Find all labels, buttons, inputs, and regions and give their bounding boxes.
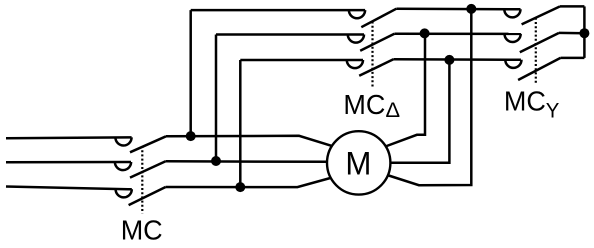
svg-text:M: M — [345, 146, 371, 182]
contactor MC-Y pole 2 blade — [520, 33, 559, 52]
contactor MC pole 3 fixed-contact cup — [116, 189, 132, 197]
contactor MC-delta pole 2 fixed-contact cup — [348, 35, 364, 43]
wire phase L3 input — [6, 187, 132, 190]
wire MC-delta pole1 output to MC-Y pole1 — [396, 7, 520, 10]
wire MC pole2 output to motor — [166, 160, 330, 163]
wire MC pole3 output to motor — [166, 177, 334, 187]
contactor MC-Y linkage dotted line — [535, 18, 537, 85]
wire phase L2 input — [6, 161, 131, 164]
svg-text:MC: MC — [504, 86, 546, 117]
wire top run 2 to MC-delta pole2 — [216, 33, 364, 36]
wire MC-Y pole3 output to star point — [561, 57, 585, 60]
contactor MC-Y pole 1 fixed-contact cup — [504, 9, 520, 17]
wire motor terminal from node E down to motor — [388, 60, 449, 163]
wire motor terminal from node D down to motor — [384, 33, 425, 147]
svg-text:Δ: Δ — [386, 98, 401, 122]
junction star-point dot — [579, 28, 589, 38]
wire riser node B to top run 2 — [215, 35, 218, 162]
wire MC-Y pole2 output to star point — [559, 32, 584, 35]
contactor MC pole 1 blade — [130, 136, 166, 152]
wire motor terminal from node F down to motor — [384, 9, 471, 185]
svg-text:MC: MC — [343, 89, 385, 120]
junction node A dot — [186, 131, 196, 141]
wire MC pole1 output to motor — [166, 136, 334, 147]
wire phase L1 input — [6, 136, 132, 139]
wire MC-Y pole1 output to star point — [560, 5, 584, 8]
junction node E dot — [444, 55, 454, 65]
wire MC-delta pole3 output to MC-Y pole3 — [393, 58, 521, 61]
wire riser node C to top run 3 — [239, 60, 242, 187]
motor M1 circle — [327, 131, 390, 194]
contactor MC-delta pole 1 blade — [361, 9, 396, 28]
contactor MC-Y pole 1 blade — [522, 6, 560, 24]
wire top run 3 to MC-delta pole3 — [240, 59, 363, 62]
contactor MC pole 2 fixed-contact cup — [115, 162, 131, 170]
contactor MC-delta pole 3 blade — [359, 59, 393, 76]
contactor MC-delta pole 3 fixed-contact cup — [347, 60, 363, 68]
contactor MC-Y pole 2 fixed-contact cup — [505, 34, 521, 42]
contactor MC pole 2 blade — [130, 161, 166, 177]
junction node D dot — [420, 28, 430, 38]
contactor MC-Y pole 3 fixed-contact cup — [505, 60, 521, 68]
junction node F dot — [466, 4, 476, 14]
contactor MC pole 3 blade — [129, 187, 166, 205]
contactor MC-delta pole 1 fixed-contact cup — [349, 10, 365, 18]
contactor MC linkage dotted line — [141, 146, 143, 214]
junction node C dot — [235, 182, 245, 192]
contactor MC-delta linkage dotted line — [371, 22, 373, 87]
wire MC-delta pole2 output to MC-Y pole2 — [394, 32, 521, 35]
wire top run 1 to MC-delta pole1 — [191, 9, 365, 12]
wire riser node A to top run 1 — [189, 10, 192, 136]
contactor MC-Y pole 3 blade — [518, 58, 560, 80]
contactor MC pole 1 fixed-contact cup — [115, 137, 131, 145]
svg-text:MC: MC — [121, 214, 163, 245]
contactor MC-delta pole 2 blade — [360, 34, 394, 51]
wire star-point vertical bus — [583, 6, 586, 58]
svg-text:Y: Y — [546, 99, 560, 123]
junction node B dot — [211, 156, 221, 166]
